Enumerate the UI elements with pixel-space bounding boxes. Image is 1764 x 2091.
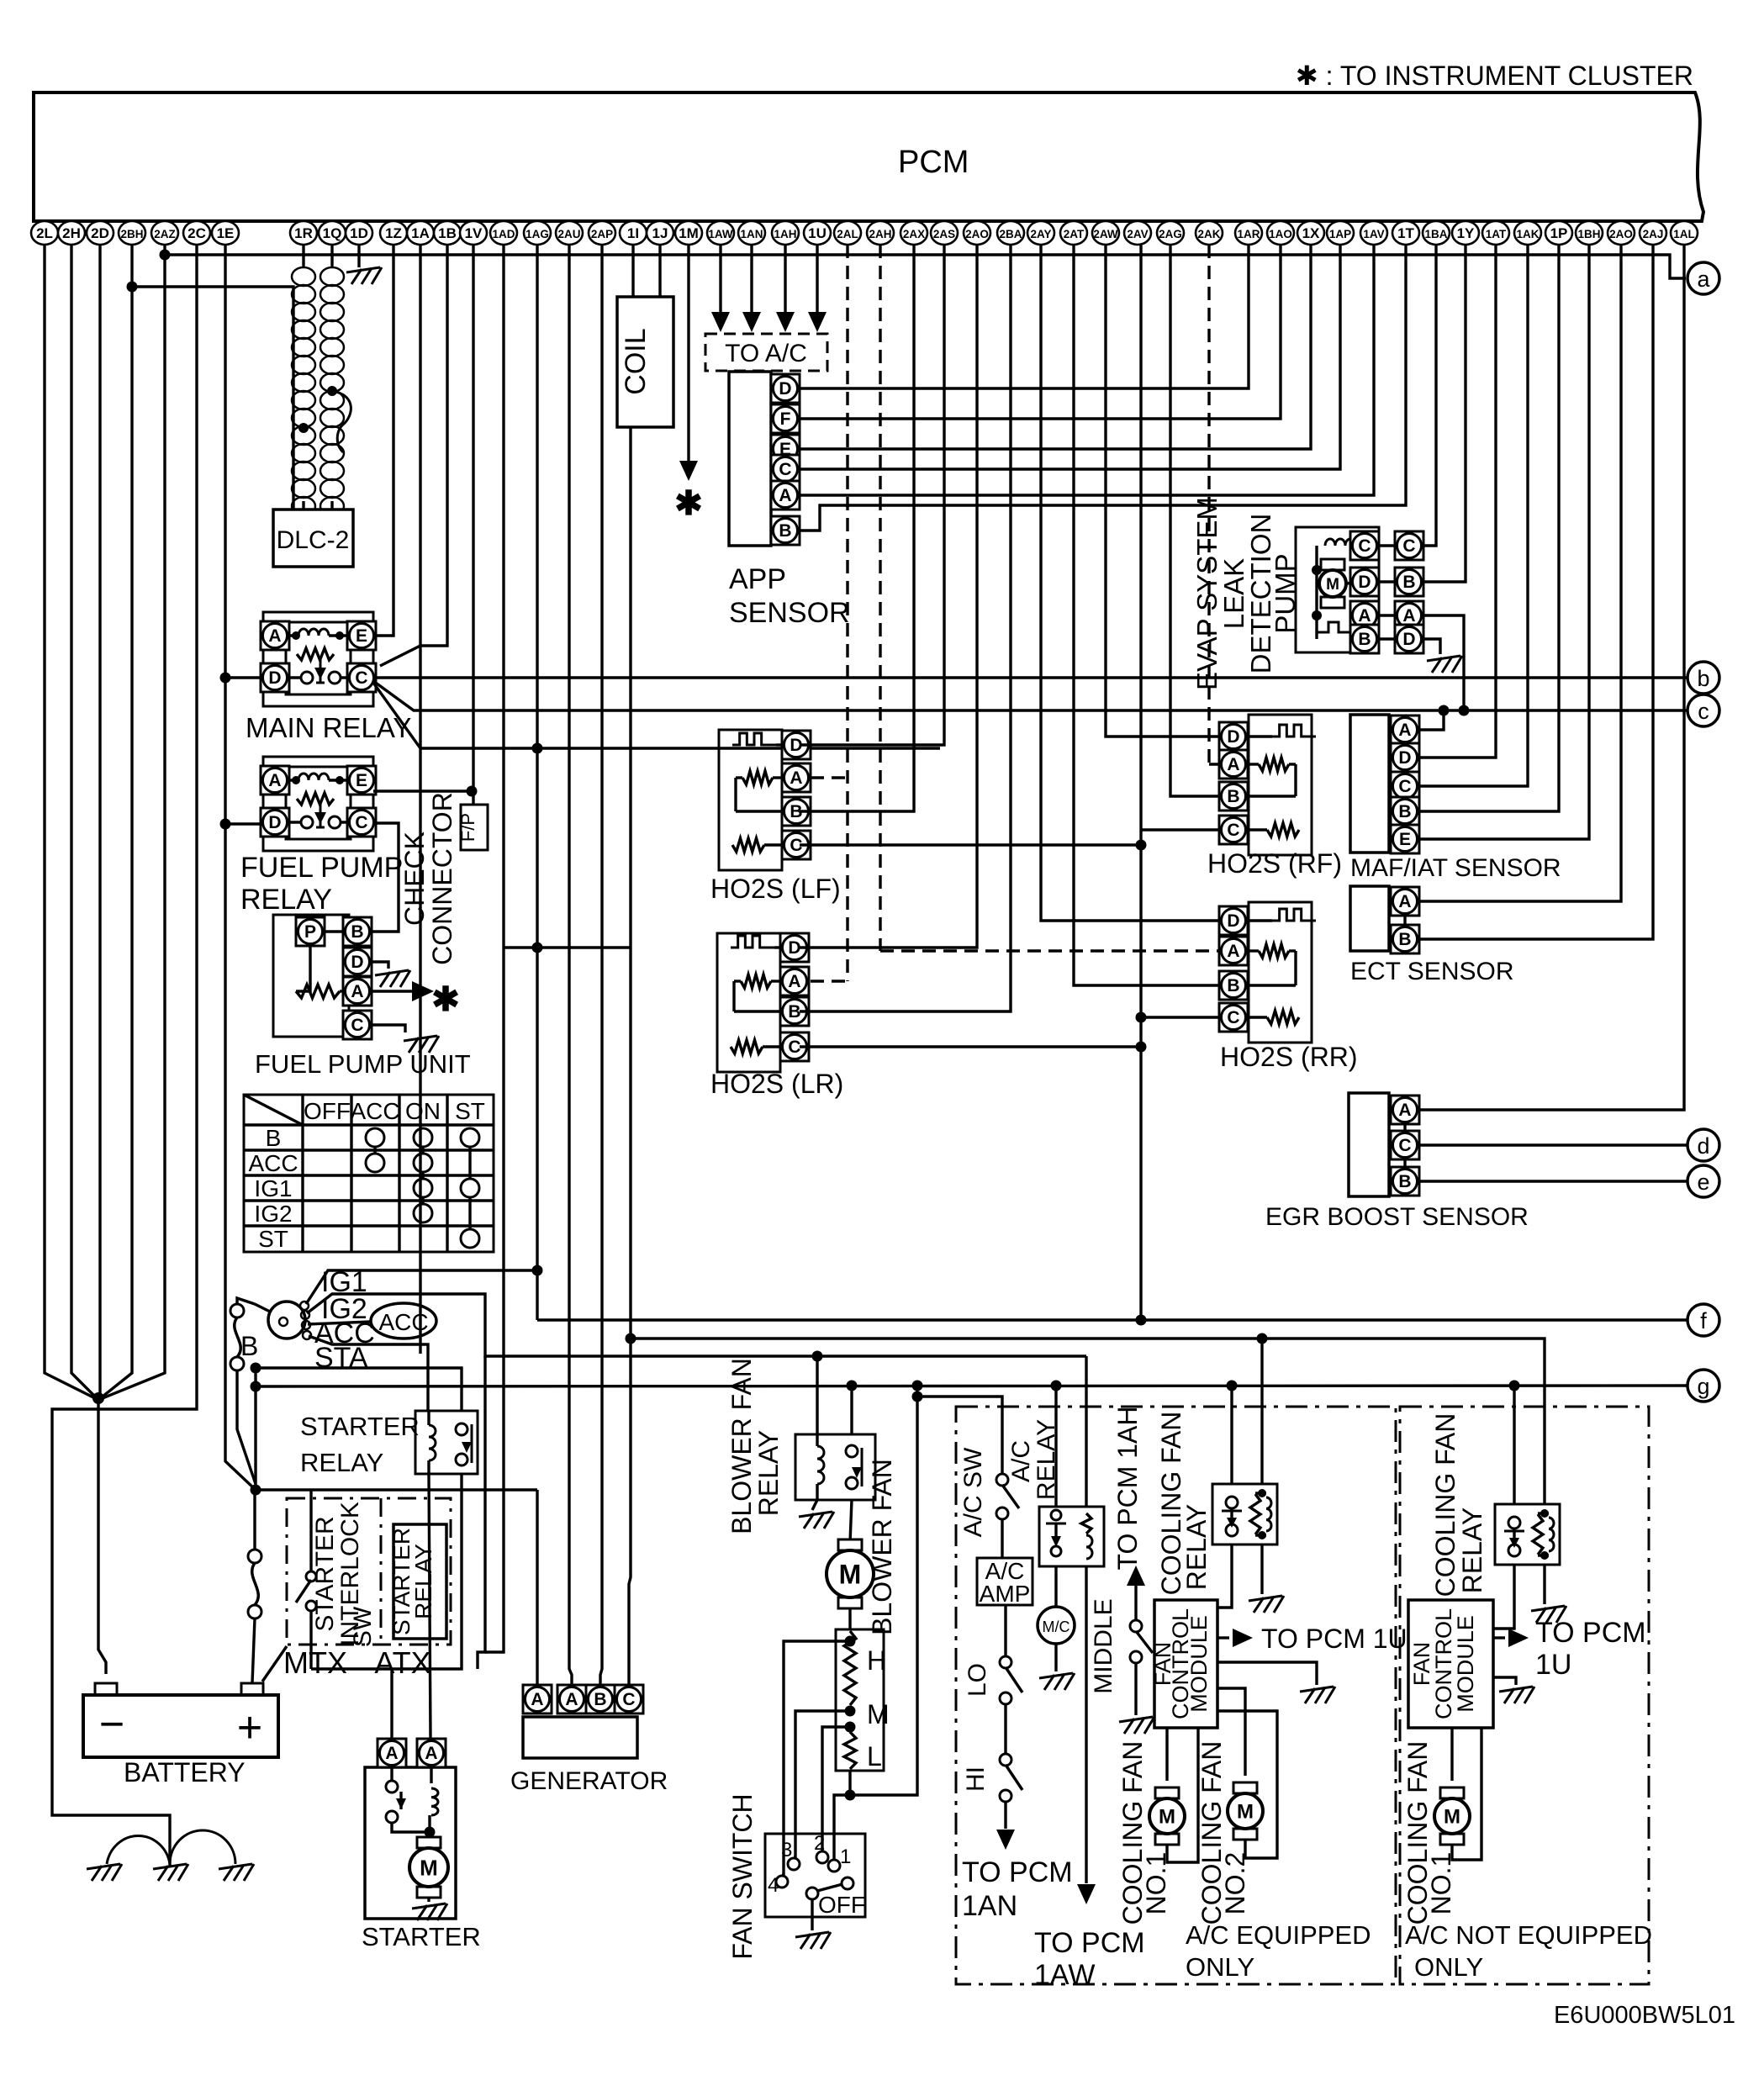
svg-text:C: C <box>779 460 791 479</box>
BLOWER FAN RELAY <box>795 1434 875 1500</box>
svg-text:P: P <box>304 922 316 942</box>
svg-text:E: E <box>1399 830 1411 849</box>
svg-text:1BA: 1BA <box>1424 228 1447 240</box>
PCM pin 2AZ <box>151 221 178 245</box>
svg-text:D: D <box>1402 630 1415 649</box>
a/c relay switch to g <box>1054 1386 1057 1507</box>
twisted pair wires 1R 1Q to DLC-2 <box>302 245 304 267</box>
ground symbol left <box>87 1864 122 1881</box>
HO2S (LF) <box>719 730 782 870</box>
HI switch <box>1004 1704 1006 1754</box>
wire 2AJ drop to node a <box>1651 245 1654 255</box>
PCM pin 2C <box>183 221 210 245</box>
IG2 wire <box>307 1294 1086 1356</box>
wire 1A to STA line <box>419 245 421 1354</box>
wire 2L to ground funnel <box>45 245 98 1400</box>
svg-text:NO.2: NO.2 <box>1220 1852 1250 1915</box>
svg-text:EGR BOOST SENSOR: EGR BOOST SENSOR <box>1265 1203 1529 1231</box>
right cooling relay switch to fan control module <box>1493 1565 1514 1629</box>
svg-text:B: B <box>1398 1172 1411 1191</box>
PCM pin 2AL <box>834 221 861 245</box>
svg-text:1Q: 1Q <box>323 225 342 241</box>
svg-text:ONLY: ONLY <box>1186 1952 1254 1982</box>
PCM pin 1I <box>620 221 647 245</box>
wire EVAP D to ground <box>1423 639 1440 654</box>
wire 2D to ground funnel <box>98 245 101 1396</box>
svg-text:C: C <box>1227 1008 1239 1027</box>
wire 2AV column down to f <box>1139 245 1142 1320</box>
left cooling relay switch to g <box>1230 1386 1233 1484</box>
svg-text:2AT: 2AT <box>1064 228 1085 240</box>
TO A/C arrows from 1AW 1AN 1AH 1U <box>719 245 721 313</box>
svg-text:NO.1: NO.1 <box>1141 1852 1171 1915</box>
A/C NOT EQUIPPED ONLY box <box>1400 1407 1649 1984</box>
wire 2H to ground funnel <box>71 245 98 1400</box>
PCM pin 2AG <box>1157 221 1184 245</box>
svg-text:B: B <box>1398 802 1411 821</box>
svg-text:HO2S (LR): HO2S (LR) <box>710 1069 843 1099</box>
EGR BOOST SENSOR <box>1349 1093 1389 1196</box>
svg-text:M: M <box>1159 1806 1175 1829</box>
svg-text:A/C SW: A/C SW <box>959 1447 987 1537</box>
A/C RELAY <box>1039 1507 1104 1566</box>
svg-text:C: C <box>355 668 367 688</box>
svg-text:1V: 1V <box>465 225 483 241</box>
wire 1BA to EVAP C <box>1423 245 1436 546</box>
wire 2BH branch to DLC-2 <box>127 282 138 293</box>
svg-text:1M: 1M <box>679 225 699 241</box>
PCM pin 2AY <box>1027 221 1054 245</box>
COOLING FAN NO.2 motor <box>1233 1782 1257 1793</box>
svg-text:H: H <box>867 1645 886 1676</box>
PCM pin 1J <box>647 221 673 245</box>
node c <box>1687 694 1719 726</box>
svg-text:ON: ON <box>405 1098 441 1124</box>
ACC oval <box>371 1303 436 1339</box>
svg-text:1AW: 1AW <box>708 228 733 240</box>
svg-text:2AP: 2AP <box>591 228 613 240</box>
svg-text:RELAY: RELAY <box>753 1430 784 1517</box>
svg-text:STARTER: STARTER <box>300 1412 420 1441</box>
svg-text:E: E <box>356 626 367 646</box>
svg-text:✱ : TO INSTRUMENT CLUSTER: ✱ : TO INSTRUMENT CLUSTER <box>1296 61 1693 91</box>
svg-text:1T: 1T <box>1397 225 1414 241</box>
svg-text:OFF: OFF <box>304 1098 351 1124</box>
PCM pin 1AK <box>1514 221 1541 245</box>
PCM pin 2AT <box>1060 221 1087 245</box>
ground symbol middle <box>153 1864 188 1881</box>
wire 2AZ to funnel <box>98 245 165 1400</box>
coil output wire to generator C <box>629 427 631 1685</box>
svg-text:A: A <box>1227 942 1239 961</box>
left FCM to cooling fan no2 <box>1217 1688 1245 1776</box>
PCM pin 1D <box>346 221 372 245</box>
PCM pin 1V <box>460 221 487 245</box>
svg-text:D: D <box>1398 748 1411 768</box>
svg-text:1B: 1B <box>438 225 457 241</box>
svg-text:A: A <box>531 1690 543 1709</box>
svg-text:2AO: 2AO <box>1609 228 1633 240</box>
chassis ground arcs <box>107 1830 235 1864</box>
wire MAF C to 1AK <box>1419 245 1528 786</box>
resistor taps to fan switch <box>782 1641 850 1875</box>
fuel pump unit D to ground <box>372 962 388 969</box>
blower resistor block <box>836 1629 884 1771</box>
svg-text:1Z: 1Z <box>385 225 402 241</box>
wire 1Y to EVAP B <box>1423 245 1466 582</box>
svg-text:AMP: AMP <box>980 1581 1031 1607</box>
svg-text:d: d <box>1697 1133 1709 1159</box>
svg-text:NO.1: NO.1 <box>1426 1852 1456 1915</box>
svg-text:1AG: 1AG <box>526 228 549 240</box>
svg-text:2AL: 2AL <box>837 228 858 240</box>
PCM pin 1R <box>290 221 317 245</box>
PCM pin 2AO <box>1608 221 1635 245</box>
g bus <box>256 1386 1687 1386</box>
svg-text:1E: 1E <box>217 225 235 241</box>
svg-text:TO PCM: TO PCM <box>1535 1617 1646 1649</box>
svg-text:E6U000BW5L01: E6U000BW5L01 <box>1554 2002 1735 2029</box>
blower relay coil top to IG2 <box>816 1356 818 1434</box>
PCM pin 1BA <box>1423 221 1450 245</box>
svg-text:BATTERY: BATTERY <box>124 1757 246 1787</box>
svg-text:A: A <box>1402 606 1415 626</box>
svg-text:A: A <box>1398 892 1411 911</box>
IG1 wire <box>306 1270 537 1304</box>
battery plus diagonal to MTX box <box>262 1646 287 1682</box>
MTX ATX selector box <box>287 1498 451 1645</box>
HO2S (LR) <box>717 933 780 1072</box>
svg-text:A: A <box>1227 755 1239 774</box>
svg-text:1U: 1U <box>1535 1649 1571 1681</box>
svg-text:1J: 1J <box>652 225 668 241</box>
PCM pin 2BA <box>997 221 1024 245</box>
svg-text:C: C <box>1398 777 1411 796</box>
svg-text:D: D <box>351 953 363 972</box>
left cooling relay switch to fan control module <box>1217 1544 1232 1608</box>
right FCM ground wire <box>1493 1677 1516 1685</box>
svg-text:A: A <box>268 771 281 790</box>
svg-text:IG2: IG2 <box>254 1201 292 1227</box>
wire HO2S RR B to 2AT <box>1074 245 1219 985</box>
svg-text:1AP: 1AP <box>1329 228 1351 240</box>
wire 2AP to generator B <box>600 245 602 1685</box>
svg-text:c: c <box>1698 699 1709 724</box>
PCM pin 1AR <box>1235 221 1262 245</box>
starter relay coil to ATX relay to starter A <box>429 1474 430 1738</box>
wire EGR B to node e <box>1419 1180 1687 1182</box>
PCM pin 2AS <box>931 221 958 245</box>
svg-text:1A: 1A <box>411 225 430 241</box>
PCM pin 1AN <box>738 221 765 245</box>
TO A/C dashed box <box>705 334 827 371</box>
PCM pin 1AV <box>1360 221 1387 245</box>
wire HO2S LR C to 2AV column <box>800 1045 1141 1048</box>
svg-text:1AN: 1AN <box>740 228 763 240</box>
svg-text:1AD: 1AD <box>492 228 515 240</box>
COOLING FAN NO.1 motor (left) <box>1165 1728 1168 1781</box>
dashed wire 2AL to HO2S LF A and LR A <box>846 245 848 981</box>
PCM pin 1AP <box>1327 221 1354 245</box>
wire 1Z to main relay E <box>373 245 393 636</box>
svg-text:MAIN RELAY: MAIN RELAY <box>246 712 411 743</box>
right FCM to PCM 1U <box>1493 1636 1505 1639</box>
svg-text:A: A <box>788 972 800 991</box>
svg-text:M: M <box>420 1855 438 1880</box>
wire 1E rail to relay D pins and battery junction <box>225 245 256 1490</box>
svg-text:ACC: ACC <box>350 1098 399 1124</box>
svg-text:D: D <box>268 813 281 832</box>
svg-text:C: C <box>1227 821 1239 840</box>
svg-text:e: e <box>1697 1170 1709 1195</box>
svg-text:M: M <box>839 1560 862 1590</box>
svg-text:FUEL PUMP UNIT: FUEL PUMP UNIT <box>255 1049 471 1079</box>
ACC wire <box>308 1322 371 1324</box>
PCM pin 1A <box>407 221 434 245</box>
svg-text:2AU: 2AU <box>557 228 580 240</box>
svg-text:SW: SW <box>349 1606 377 1647</box>
right cooling relay coil to ground <box>1543 1565 1545 1604</box>
f bus <box>537 1318 1687 1321</box>
right cooling relay switch to g <box>1513 1386 1515 1504</box>
wire HO2S LF D to 2AS <box>800 245 944 745</box>
wire 2AU to generator A <box>569 245 572 1685</box>
svg-text:D: D <box>1227 727 1239 747</box>
svg-text:1BH: 1BH <box>1577 228 1600 240</box>
svg-text:B: B <box>1358 630 1371 649</box>
svg-text:M: M <box>1444 1806 1460 1829</box>
svg-text:MTX: MTX <box>283 1645 347 1680</box>
wires 1I 1J to coil <box>631 245 634 297</box>
PCM pin 2AK <box>1196 221 1223 245</box>
COIL component <box>617 297 673 427</box>
wire HO2S RF C to 2AV column <box>1141 828 1219 831</box>
svg-text:D: D <box>268 668 281 688</box>
svg-text:1AW: 1AW <box>1034 1959 1095 1991</box>
svg-text:MODULE: MODULE <box>1186 1615 1212 1713</box>
wire EVAP A to c bus <box>1423 615 1464 710</box>
svg-text:2L: 2L <box>36 225 53 241</box>
ground symbol right <box>219 1864 254 1881</box>
wire MAF E to 1BH <box>1419 245 1589 839</box>
generator A1 feed from B+ rail <box>536 1490 538 1685</box>
PCM pin 2D <box>87 221 114 245</box>
svg-text:2BA: 2BA <box>999 228 1022 240</box>
svg-text:MODULE: MODULE <box>1453 1615 1478 1713</box>
svg-text:RELAY: RELAY <box>300 1448 383 1477</box>
svg-text:A: A <box>779 486 791 505</box>
svg-text:A: A <box>1398 721 1411 740</box>
interlock feed from B+ rail <box>256 1488 537 1491</box>
PCM pin 1B <box>434 221 461 245</box>
BATTERY <box>83 1695 278 1757</box>
HO2S (RR) <box>1249 902 1312 1043</box>
svg-text:A: A <box>268 626 281 646</box>
PCM pin 2L <box>31 221 58 245</box>
svg-text:1AL: 1AL <box>1673 228 1695 240</box>
svg-text:OFF: OFF <box>818 1892 865 1918</box>
wire MAF D to 1AT <box>1419 245 1496 758</box>
svg-text:DLC-2: DLC-2 <box>277 526 350 554</box>
FAN SWITCH <box>765 1834 865 1917</box>
svg-text:a: a <box>1697 267 1710 292</box>
svg-text:A: A <box>1398 1101 1411 1120</box>
PCM pin 1Z <box>380 221 407 245</box>
main relay C output wires to b, c and 890 bus <box>373 676 1687 679</box>
wire HO2S LF C to 2AV column <box>800 843 1141 846</box>
svg-text:2AG: 2AG <box>1159 228 1182 240</box>
LO switch <box>1004 1605 1006 1656</box>
wire 1V <box>472 245 474 805</box>
svg-text:A: A <box>385 1744 398 1763</box>
svg-text:ST: ST <box>258 1226 288 1252</box>
svg-text:2AK: 2AK <box>1197 228 1220 240</box>
svg-text:2H: 2H <box>62 225 81 241</box>
shield drain hook <box>327 386 337 396</box>
starter relay switch to starter A <box>311 1474 462 1669</box>
svg-text:1R: 1R <box>294 225 313 241</box>
svg-text:ATX: ATX <box>374 1645 430 1680</box>
starter relay feed wire <box>256 1368 462 1411</box>
PCM pin 1T <box>1392 221 1419 245</box>
PCM pin 2AX <box>900 221 927 245</box>
funnel junction to battery minus <box>92 1392 104 1404</box>
svg-text:HI: HI <box>962 1766 990 1792</box>
svg-text:RELAY: RELAY <box>1457 1508 1487 1594</box>
STA wire <box>309 1336 428 1411</box>
svg-text:1P: 1P <box>1550 225 1568 241</box>
PCM pin 2AU <box>556 221 583 245</box>
svg-text:MIDDLE: MIDDLE <box>1090 1598 1117 1693</box>
svg-text:B: B <box>779 521 791 541</box>
ground near 1D <box>357 245 360 267</box>
PCM pin 2AP <box>589 221 615 245</box>
wire ECT A to 2AO <box>1419 245 1621 901</box>
svg-text:RELAY: RELAY <box>410 1544 436 1619</box>
svg-text:M/C: M/C <box>1043 1618 1070 1635</box>
svg-text:1AV: 1AV <box>1363 228 1384 240</box>
svg-text:1AH: 1AH <box>774 228 796 240</box>
svg-text:1D: 1D <box>350 225 368 241</box>
svg-text:D: D <box>779 379 791 399</box>
DLC-2 connector <box>273 510 353 567</box>
wire HO2S RR D to 2AY <box>1041 245 1219 921</box>
1AD wire <box>485 245 504 1652</box>
svg-text:B: B <box>1398 930 1411 949</box>
node f <box>1687 1304 1719 1336</box>
svg-text:2AS: 2AS <box>933 228 955 240</box>
svg-text:BLOWER FAN: BLOWER FAN <box>726 1358 757 1534</box>
svg-text:2AW: 2AW <box>1093 228 1118 240</box>
wire HO2S LR B to 2BA <box>800 245 1011 1011</box>
svg-text:FAN SWITCH: FAN SWITCH <box>727 1793 758 1959</box>
BLOWER FAN motor <box>850 1500 852 1543</box>
svg-text:2BH: 2BH <box>120 228 143 240</box>
svg-text:A/C NOT EQUIPPED: A/C NOT EQUIPPED <box>1405 1920 1652 1950</box>
svg-text:2D: 2D <box>91 225 109 241</box>
wire HO2S RF B to 2AG <box>1170 245 1219 796</box>
svg-text:g: g <box>1697 1374 1709 1399</box>
svg-text:M: M <box>867 1699 890 1729</box>
left cooling relay coil feed <box>1260 1339 1263 1484</box>
svg-text:C: C <box>1398 1136 1411 1155</box>
FUEL PUMP UNIT <box>273 915 349 1037</box>
PCM pin 1AL <box>1671 221 1698 245</box>
IG2 column extension to starter area <box>478 1356 485 1669</box>
PCM module box <box>34 92 1703 221</box>
svg-text:ONLY: ONLY <box>1414 1952 1483 1982</box>
svg-text:TO PCM 1AH: TO PCM 1AH <box>1112 1407 1143 1571</box>
STARTER <box>365 1767 456 1919</box>
PCM pin 2AO <box>964 221 990 245</box>
svg-text:1I: 1I <box>627 225 639 241</box>
svg-text:ACC: ACC <box>248 1150 298 1176</box>
MAIN RELAY <box>263 612 373 706</box>
A/C SW <box>917 1397 1002 1474</box>
blower relay switch top to g <box>850 1386 853 1434</box>
fuel pump unit A to instrument cluster asterisk <box>372 990 415 992</box>
svg-text:B: B <box>240 1331 258 1361</box>
svg-text:C: C <box>1358 536 1371 556</box>
wire HO2S RF D to 2AW <box>1106 245 1219 737</box>
svg-text:2AO: 2AO <box>965 228 989 240</box>
PCM pin 2AW <box>1092 221 1119 245</box>
bus 1127 <box>504 946 631 948</box>
svg-text:B: B <box>1227 787 1239 806</box>
MAF/IAT SENSOR <box>1350 715 1389 853</box>
svg-text:A: A <box>1358 606 1371 626</box>
STARTER RELAY <box>415 1411 478 1474</box>
svg-text:TO PCM: TO PCM <box>1034 1927 1145 1959</box>
svg-text:BLOWER FAN: BLOWER FAN <box>867 1459 897 1635</box>
left FCM to PCM 1U <box>1217 1636 1229 1639</box>
svg-text:M: M <box>1326 576 1339 594</box>
PCM pin 1AG <box>524 221 551 245</box>
svg-text:B: B <box>351 922 363 942</box>
wire EGR A to 1AL <box>1419 245 1684 1110</box>
node b <box>1687 662 1719 694</box>
FAN CONTROL MODULE (right) <box>1408 1600 1493 1728</box>
dashed wire 2AK to HO2S RF A <box>1207 245 1210 764</box>
relay coil bus 1592 <box>631 1339 1545 1504</box>
svg-text:b: b <box>1697 666 1709 691</box>
wire 2AZ branch to node a <box>160 250 171 261</box>
svg-text:1: 1 <box>840 1845 851 1868</box>
wire 2BH to funnel <box>98 245 132 1400</box>
wire ECT B to 2AJ column <box>1419 255 1653 939</box>
PCM pin 1BH <box>1576 221 1603 245</box>
svg-text:B: B <box>788 1002 800 1022</box>
B+ rail to battery plus with inline connector <box>253 1490 256 1550</box>
fuel pump unit C to ground <box>372 1025 405 1032</box>
svg-text:2AY: 2AY <box>1030 228 1051 240</box>
B+ rail junctions <box>251 1363 261 1374</box>
svg-text:+: + <box>237 1703 262 1752</box>
svg-text:ECT SENSOR: ECT SENSOR <box>1350 958 1514 985</box>
COOLING FAN RELAY (A/C equipped) <box>1212 1484 1277 1544</box>
svg-text:1AT: 1AT <box>1486 228 1507 240</box>
svg-text:L: L <box>867 1741 882 1772</box>
svg-text:F/P: F/P <box>457 813 478 842</box>
PCM pin 1X <box>1297 221 1324 245</box>
wire HO2S RR C to 2AV column <box>1141 1016 1219 1018</box>
left FCM ground wire <box>1217 1662 1317 1685</box>
svg-text:HO2S (RF): HO2S (RF) <box>1207 848 1342 879</box>
svg-text:B: B <box>266 1125 282 1151</box>
svg-text:2: 2 <box>814 1832 825 1855</box>
svg-text:MAF/IAT SENSOR: MAF/IAT SENSOR <box>1350 854 1561 882</box>
svg-text:A: A <box>790 768 802 788</box>
